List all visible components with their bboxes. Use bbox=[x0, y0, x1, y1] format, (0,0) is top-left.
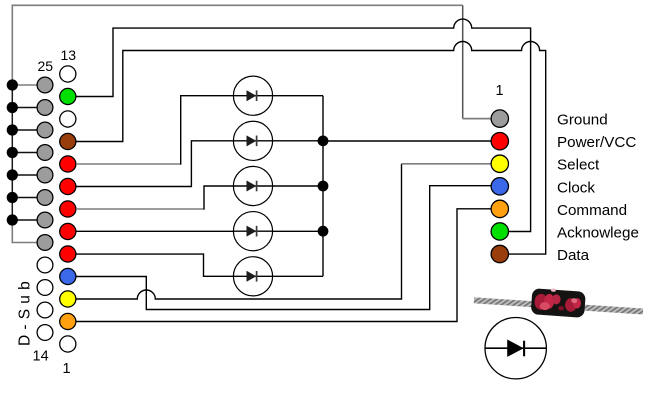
svg-text:Power/VCC: Power/VCC bbox=[557, 134, 636, 151]
D-Sub pin 3 bbox=[60, 291, 76, 307]
svg-text:Select: Select bbox=[557, 157, 600, 174]
wire ground bus bottom bend to pin 18 bbox=[12, 220, 37, 243]
D-Sub pin 8 bbox=[60, 178, 76, 194]
D-Sub pin 11 bbox=[60, 111, 76, 127]
wire diode output bus bbox=[322, 96, 324, 277]
D-Sub pin 22 bbox=[37, 145, 53, 161]
D-Sub pin 14 bbox=[37, 325, 53, 341]
junction on diode bus bbox=[318, 181, 329, 192]
wire net Clock: pin4 to right connector bbox=[76, 186, 492, 310]
controller pin 5 (Command) bbox=[491, 200, 508, 217]
D-Sub pin 13 bbox=[60, 66, 76, 82]
wire diode D2 feed from pin 8 bbox=[76, 141, 323, 187]
wire diode D3 riser bbox=[204, 186, 234, 210]
D-Sub pin 9 bbox=[60, 156, 76, 172]
diode symbol (legend) bbox=[485, 318, 547, 379]
wire stub to D-Sub gray pin row 2 bbox=[12, 107, 37, 109]
wire diode D5 feed from pin 5 bbox=[76, 254, 323, 276]
wire into Ground pin bbox=[463, 118, 492, 120]
D-Sub pin 23 bbox=[37, 122, 53, 138]
wire net Data: pin10 to right connector (hops) bbox=[76, 42, 546, 255]
D-Sub pin 4 bbox=[60, 268, 76, 284]
D-Sub pin 18 bbox=[37, 235, 53, 251]
D-Sub pin 20 bbox=[37, 190, 53, 206]
wire ground drop on right bbox=[462, 5, 464, 118]
wire stub to D-Sub gray pin row 6 bbox=[12, 197, 37, 199]
D-Sub pin 15 bbox=[37, 302, 53, 318]
svg-text:D-Sub: D-Sub bbox=[17, 276, 34, 346]
svg-text:Ground: Ground bbox=[557, 112, 608, 129]
svg-text:1: 1 bbox=[63, 361, 71, 377]
wire net Acknowledge: pin12 to right connector (hop over ground drop) bbox=[76, 19, 531, 231]
D-Sub pin 6 bbox=[60, 223, 76, 239]
D-Sub pin 10 bbox=[60, 133, 76, 149]
diode D1 bbox=[233, 76, 272, 115]
diode D2 bbox=[233, 121, 272, 160]
D-Sub pin 1 bbox=[60, 336, 76, 352]
controller pin 2 (Power/VCC) bbox=[491, 132, 508, 149]
wire ground top run bbox=[12, 4, 463, 6]
controller pin 3 (Select) bbox=[491, 155, 508, 172]
svg-text:Acknowlege: Acknowlege bbox=[557, 224, 639, 241]
D-Sub pin 7 bbox=[60, 201, 76, 217]
D-Sub pin 19 bbox=[37, 212, 53, 228]
diode D3 bbox=[233, 166, 272, 205]
controller pin 6 (Acknowlege) bbox=[491, 223, 508, 240]
wire stub to D-Sub gray pin row 1 bbox=[12, 84, 37, 86]
junction on ground bus row 2 bbox=[7, 102, 18, 113]
controller pin 7 (Data) bbox=[491, 245, 508, 262]
wire net Command: pin2 to right connector bbox=[76, 209, 492, 322]
junction on ground bus row 5 bbox=[7, 169, 18, 180]
D-Sub pin 21 bbox=[37, 167, 53, 183]
junction on diode bus bbox=[318, 226, 329, 237]
wire diode D3 feed from pin 7 (gray) bbox=[76, 208, 204, 210]
svg-text:Data: Data bbox=[557, 247, 590, 264]
wire stub to D-Sub gray pin row 5 bbox=[12, 174, 37, 176]
diode D4 bbox=[233, 212, 272, 251]
wire stub to D-Sub gray pin row 4 bbox=[12, 152, 37, 154]
junction on ground bus row 6 bbox=[7, 192, 18, 203]
wire diode D4 row from pin 6 bbox=[76, 230, 323, 232]
wire ground bus vertical (middle) bbox=[11, 85, 13, 220]
wire stub to D-Sub gray pin row 3 bbox=[12, 129, 37, 131]
D-Sub pin 12 bbox=[60, 88, 76, 104]
controller pin 4 (Clock) bbox=[491, 178, 508, 195]
D-Sub pin 16 bbox=[37, 280, 53, 296]
D-Sub pin 24 bbox=[37, 100, 53, 116]
svg-text:13: 13 bbox=[61, 47, 77, 63]
wire diode D1 riser and row bbox=[181, 96, 323, 165]
junction on ground bus row 1 bbox=[7, 79, 18, 90]
wire stub to D-Sub gray pin row 7 bbox=[12, 219, 37, 221]
svg-text:1: 1 bbox=[496, 83, 504, 99]
wire diode D3 row bbox=[233, 185, 323, 187]
junction on ground bus row 7 bbox=[7, 214, 18, 225]
svg-text:Clock: Clock bbox=[557, 179, 595, 196]
wire net Power/VCC: bus to right connector bbox=[323, 140, 492, 142]
junction on ground bus row 4 bbox=[7, 147, 18, 158]
wire ground bus vertical (top, gray) bbox=[11, 5, 13, 86]
wire net Select: pin3 to right connector (hop over Clock wire) bbox=[76, 164, 402, 299]
svg-text:25: 25 bbox=[38, 58, 54, 74]
D-Sub pin 25 bbox=[37, 77, 53, 93]
junction on ground bus row 3 bbox=[7, 124, 18, 135]
diode D5 bbox=[233, 257, 272, 296]
svg-text:Command: Command bbox=[557, 202, 627, 219]
D-Sub pin 5 bbox=[60, 246, 76, 262]
diode photo: body bbox=[531, 287, 586, 318]
wire diode D1 feed from pin 9 (gray) bbox=[76, 163, 181, 165]
controller pin 1 (Ground) bbox=[491, 110, 508, 127]
svg-text:14: 14 bbox=[33, 349, 49, 365]
wire net Select horizontal into pin (gray) bbox=[402, 163, 492, 165]
junction on diode bus bbox=[318, 135, 329, 146]
D-Sub pin 2 bbox=[60, 313, 76, 329]
D-Sub pin 17 bbox=[37, 257, 53, 273]
